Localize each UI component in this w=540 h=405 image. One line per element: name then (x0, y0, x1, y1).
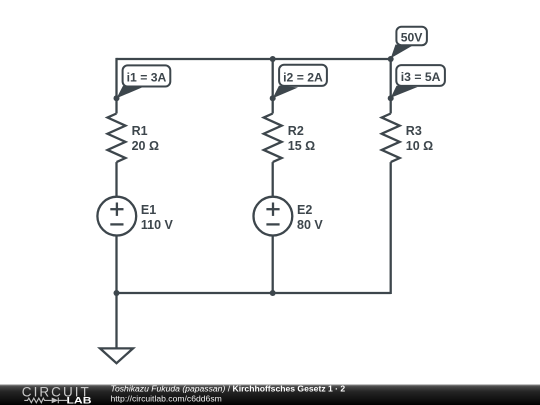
wire branch2 mid vertical (272, 162, 274, 197)
resistor R1 (108, 114, 160, 163)
wire branch3 lower vertical (390, 162, 392, 294)
voltage source E2 (254, 197, 324, 236)
node dot branch3 flag anchor (388, 95, 394, 101)
node dot bottom mid junction (270, 290, 276, 296)
svg-text:Toshikazu Fukuda (papassan) /: Toshikazu Fukuda (papassan) / Kirchhoffs… (111, 383, 346, 393)
logo resistor-diode squiggle (24, 398, 67, 404)
node dot branch2 flag anchor (270, 95, 276, 101)
svg-text:15 Ω: 15 Ω (288, 139, 315, 153)
svg-text:R2: R2 (288, 124, 304, 138)
flag i2 = 2A (273, 65, 327, 99)
wire branch2 upper vertical (272, 58, 274, 114)
wire ground stem (115, 293, 117, 348)
svg-text:E2: E2 (297, 203, 312, 217)
svg-text:20 Ω: 20 Ω (132, 139, 159, 153)
wire branch1 mid vertical (115, 162, 117, 197)
wire branch2 lower vertical (272, 236, 274, 294)
svg-text:R3: R3 (406, 124, 422, 138)
flag i1 = 3A (117, 65, 171, 98)
flag i3 = 5A (391, 65, 445, 98)
svg-text:80 V: 80 V (297, 218, 323, 232)
node dot bottom left junction (114, 290, 120, 296)
flag 50V (391, 27, 427, 59)
ground (100, 348, 133, 363)
resistor R3 (382, 114, 434, 163)
node dot branch2 top junction (270, 56, 276, 62)
svg-text:10 Ω: 10 Ω (406, 139, 433, 153)
svg-text:R1: R1 (132, 124, 148, 138)
wire branch3 upper vertical (390, 58, 392, 114)
wire branch1 upper vertical (115, 58, 117, 114)
svg-text:E1: E1 (141, 203, 156, 217)
svg-text:http://circuitlab.com/c6dd6sm: http://circuitlab.com/c6dd6sm (111, 393, 222, 403)
svg-text:i2 = 2A: i2 = 2A (283, 71, 323, 85)
resistor R2 (264, 114, 316, 163)
svg-text:110 V: 110 V (141, 218, 174, 232)
svg-text:i1 = 3A: i1 = 3A (127, 71, 167, 85)
node dot branch3 top junction (388, 56, 394, 62)
wire branch1 lower vertical (115, 236, 117, 294)
svg-text:50V: 50V (401, 30, 424, 44)
svg-text:LAB: LAB (67, 396, 92, 405)
voltage source E1 (97, 197, 173, 236)
svg-text:i3 = 5A: i3 = 5A (401, 70, 441, 84)
wire top horizontal (117, 58, 391, 60)
node dot branch1 flag anchor (114, 95, 120, 101)
wire bottom horizontal (117, 292, 391, 294)
